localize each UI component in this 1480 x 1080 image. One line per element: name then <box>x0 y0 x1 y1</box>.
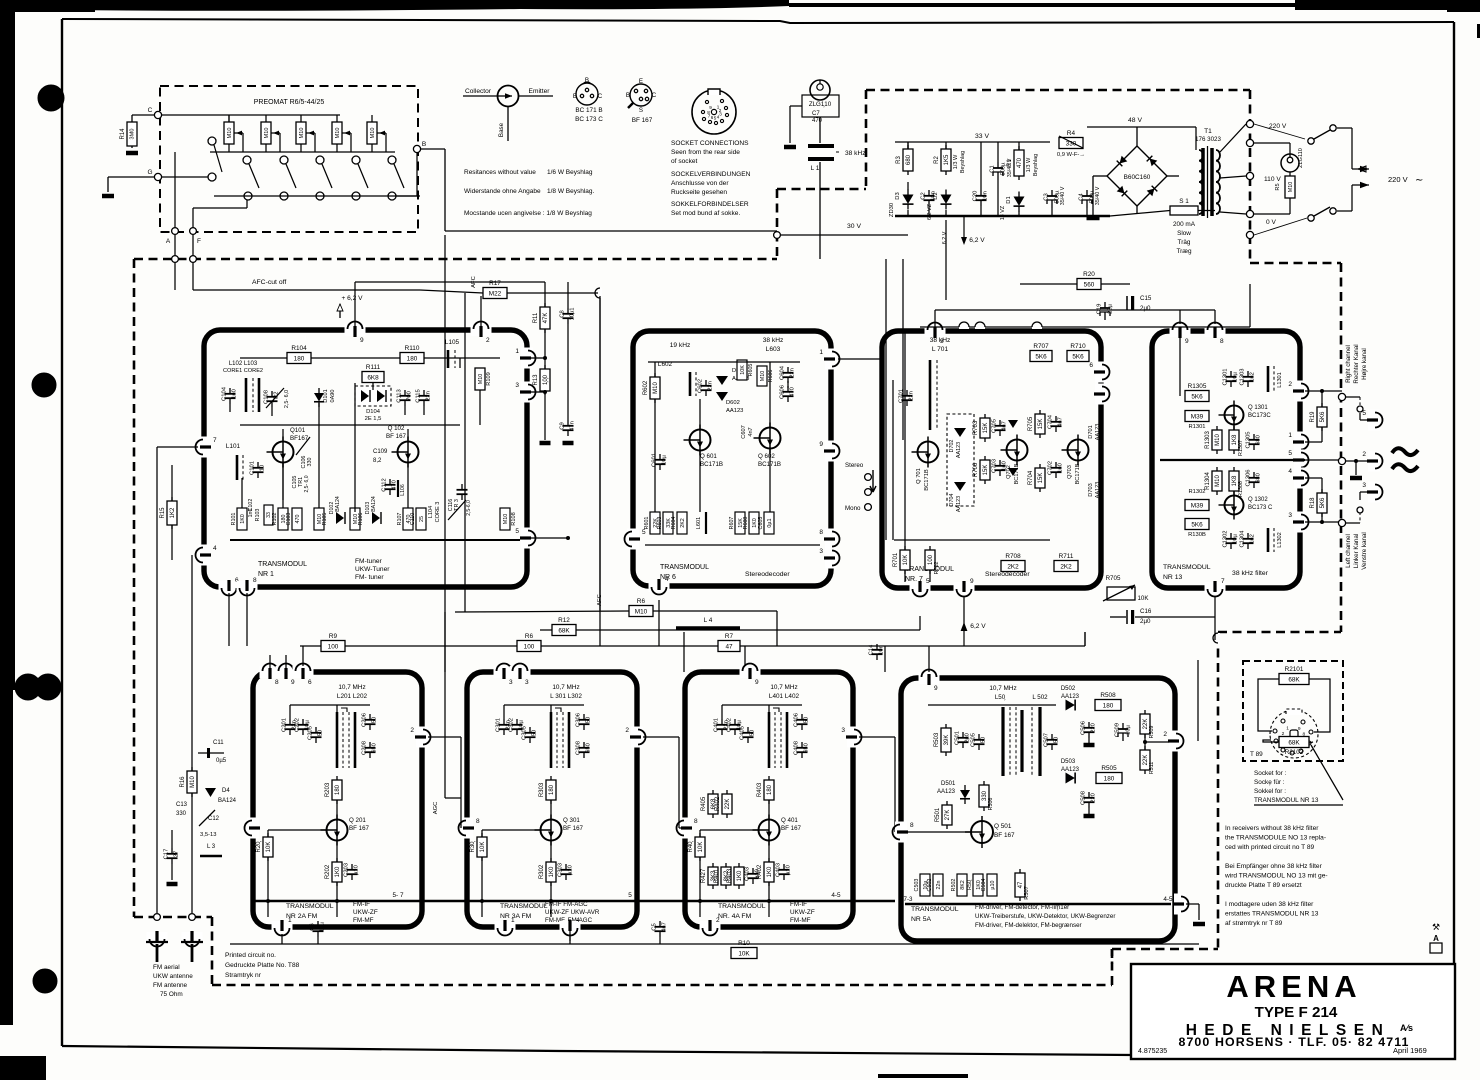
svg-text:R607: R607 <box>729 517 735 530</box>
svg-text:680: 680 <box>906 154 912 165</box>
svg-text:+ 6,2 V: + 6,2 V <box>341 295 363 302</box>
svg-text:D101: D101 <box>323 389 329 402</box>
svg-text:R1302: R1302 <box>1188 489 1205 495</box>
svg-text:A⁄s: A⁄s <box>1400 1023 1413 1033</box>
svg-text:10K: 10K <box>903 555 909 566</box>
svg-text:BF 167: BF 167 <box>386 433 407 440</box>
svg-text:10,7 MHz: 10,7 MHz <box>552 684 579 691</box>
svg-text:38 kHz: 38 kHz <box>845 150 866 157</box>
svg-text:200 mA: 200 mA <box>1173 221 1196 228</box>
svg-text:2,5- 6,0: 2,5- 6,0 <box>304 475 310 492</box>
svg-text:R105: R105 <box>322 513 328 526</box>
svg-text:D701: D701 <box>1088 425 1094 438</box>
svg-text:C112: C112 <box>382 478 388 491</box>
svg-text:Resitances without value: Resitances without value <box>464 169 536 176</box>
svg-text:R102: R102 <box>272 513 278 526</box>
svg-text:SOCKELVERBINDUNGEN: SOCKELVERBINDUNGEN <box>671 171 751 178</box>
svg-text:AA123: AA123 <box>726 408 743 414</box>
svg-text:UKW-Tuner: UKW-Tuner <box>355 566 390 573</box>
svg-text:R1307: R1307 <box>1238 440 1244 456</box>
svg-text:R40̙: R40̙ <box>688 841 694 853</box>
svg-text:6,2 V: 6,2 V <box>970 623 986 630</box>
svg-text:3: 3 <box>509 679 513 686</box>
svg-text:50: 50 <box>372 717 378 723</box>
svg-text:R506: R506 <box>988 798 994 811</box>
svg-text:C403: C403 <box>776 863 782 877</box>
svg-text:B60C160: B60C160 <box>1124 174 1151 181</box>
svg-text:2K2: 2K2 <box>1007 563 1019 570</box>
svg-text:30 V: 30 V <box>847 223 861 230</box>
svg-text:AA123: AA123 <box>1061 694 1080 700</box>
svg-text:C113: C113 <box>397 389 403 402</box>
svg-text:BF 167: BF 167 <box>563 825 584 832</box>
svg-text:8: 8 <box>910 822 914 829</box>
svg-text:R108: R108 <box>511 512 517 525</box>
svg-text:C2: C2 <box>921 192 927 199</box>
svg-text:L101: L101 <box>226 443 241 450</box>
svg-text:E: E <box>573 93 577 100</box>
svg-text:R704: R704 <box>1028 470 1034 485</box>
svg-text:R20̙: R20̙ <box>256 841 262 853</box>
svg-text:L104: L104 <box>428 506 434 518</box>
svg-text:33 V: 33 V <box>975 133 989 140</box>
svg-text:TRANSMODUL: TRANSMODUL <box>718 903 766 910</box>
svg-text:⚒: ⚒ <box>1432 922 1440 932</box>
svg-text:1/3 W: 1/3 W <box>1026 157 1032 172</box>
svg-text:1n2: 1n2 <box>1250 534 1256 544</box>
svg-text:R511: R511 <box>1149 762 1155 775</box>
svg-text:Socket for :: Socket for : <box>1254 770 1287 777</box>
svg-text:C8: C8 <box>560 310 566 317</box>
svg-text:µ10: µ10 <box>568 865 574 875</box>
svg-text:µ10: µ10 <box>990 880 996 889</box>
svg-text:2E 1,5: 2E 1,5 <box>365 416 382 422</box>
svg-text:R710: R710 <box>1070 343 1086 350</box>
svg-text:Mono: Mono <box>845 505 861 512</box>
svg-text:C1: C1 <box>990 165 996 172</box>
svg-text:10K: 10K <box>480 842 486 853</box>
svg-text:7-3: 7-3 <box>904 896 914 903</box>
svg-text:ZLG110: ZLG110 <box>1298 148 1304 168</box>
svg-text:10n: 10n <box>879 645 885 655</box>
svg-text:µ10: µ10 <box>354 865 360 875</box>
svg-text:110 V: 110 V <box>1264 176 1281 183</box>
svg-text:AA123: AA123 <box>937 789 956 795</box>
svg-text:1n0: 1n0 <box>232 389 238 399</box>
svg-text:druckte Platte T 89 ersetzt: druckte Platte T 89 ersetzt <box>1225 882 1302 889</box>
svg-text:af strømtryk nr T 89: af strømtryk nr T 89 <box>1225 920 1283 927</box>
svg-text:10µ1: 10µ1 <box>570 307 576 320</box>
svg-text:C508: C508 <box>1081 791 1087 805</box>
svg-text:Rechter Kanal: Rechter Kanal <box>1353 344 1360 383</box>
svg-text:TRANSMODUL NR 13: TRANSMODUL NR 13 <box>1254 797 1319 804</box>
svg-text:erstattes TRANSMODUL NR: erstattes TRANSMODUL NR 13 <box>1225 911 1319 918</box>
svg-text:ced with printed circuit n: ced with printed circuit no T 89 <box>1225 844 1315 851</box>
svg-text:R111: R111 <box>366 364 381 371</box>
svg-text:M10: M10 <box>335 128 341 139</box>
svg-text:Stereodecoder: Stereodecoder <box>745 571 790 578</box>
svg-text:A: A <box>1433 934 1439 943</box>
svg-text:AA123: AA123 <box>1095 482 1101 499</box>
svg-text:C110: C110 <box>410 513 416 526</box>
svg-text:R5: R5 <box>1275 183 1281 190</box>
svg-text:R12: R12 <box>558 617 570 624</box>
svg-text:C1304: C1304 <box>1240 530 1246 548</box>
svg-text:C505: C505 <box>971 733 977 747</box>
svg-text:1K2: 1K2 <box>170 507 176 518</box>
svg-text:C: C <box>652 92 657 99</box>
svg-text:3,5-13: 3,5-13 <box>200 832 216 838</box>
svg-text:C12: C12 <box>208 816 220 822</box>
svg-text:C: C <box>598 93 603 100</box>
svg-text:R2101: R2101 <box>1285 666 1304 673</box>
svg-text:CORE 3: CORE 3 <box>435 502 441 523</box>
svg-text:50: 50 <box>586 717 592 723</box>
svg-text:C306: C306 <box>576 713 582 727</box>
svg-text:TRANSMODUL: TRANSMODUL <box>911 906 959 913</box>
svg-text:2,5-6,0: 2,5-6,0 <box>466 500 472 516</box>
svg-text:6K8: 6K8 <box>367 374 379 381</box>
svg-text:Ruckseite gesehen: Ruckseite gesehen <box>671 189 727 196</box>
svg-text:2µ0: 2µ0 <box>1140 305 1151 312</box>
svg-text:AA123: AA123 <box>1095 424 1101 441</box>
svg-text:L601: L601 <box>696 517 702 529</box>
svg-text:Widerstande ohne Angabe: Widerstande ohne Angabe <box>464 188 541 195</box>
svg-text:650: 650 <box>586 743 592 753</box>
svg-text:15K: 15K <box>1038 473 1044 484</box>
svg-text:1: 1 <box>515 348 519 355</box>
svg-text:BC171B: BC171B <box>1014 463 1020 484</box>
svg-text:M22: M22 <box>489 290 502 297</box>
svg-text:9: 9 <box>360 337 364 344</box>
svg-text:TRANSMODUL: TRANSMODUL <box>500 903 548 910</box>
svg-text:6: 6 <box>308 679 312 686</box>
svg-text:R130B: R130B <box>1188 532 1206 538</box>
svg-text:M10: M10 <box>635 608 648 615</box>
svg-text:E: E <box>639 78 643 85</box>
svg-text:3: 3 <box>819 548 823 555</box>
svg-text:10K: 10K <box>1137 595 1149 602</box>
svg-text:470: 470 <box>812 118 823 124</box>
svg-text:BC171B: BC171B <box>700 461 723 468</box>
svg-text:UKW-Treiberstufe, UKW-Detektor: UKW-Treiberstufe, UKW-Detektor, UKW-Begr… <box>975 913 1115 920</box>
svg-text:R705: R705 <box>1028 416 1034 431</box>
svg-text:ARENA: ARENA <box>1226 969 1361 1004</box>
svg-text:22n: 22n <box>708 381 714 391</box>
svg-text:NR 13: NR 13 <box>1163 574 1182 581</box>
svg-text:22n: 22n <box>936 881 942 890</box>
svg-text:Base: Base <box>498 122 505 137</box>
svg-text:C1303: C1303 <box>1240 368 1246 385</box>
svg-text:25µ: 25µ <box>1108 303 1114 313</box>
svg-text:Träg: Träg <box>1178 239 1191 246</box>
svg-text:1: 1 <box>511 917 515 924</box>
svg-text:3: 3 <box>719 112 722 117</box>
svg-text:C208: C208 <box>362 741 368 755</box>
svg-text:C103: C103 <box>286 513 292 526</box>
svg-text:C602: C602 <box>698 379 704 393</box>
svg-text:R706: R706 <box>973 462 979 477</box>
svg-text:27K: 27K <box>945 810 951 821</box>
svg-text:68K: 68K <box>558 627 570 634</box>
svg-text:5: 5 <box>628 892 632 899</box>
svg-text:µ10: µ10 <box>755 869 761 879</box>
svg-text:1K0: 1K0 <box>737 870 743 881</box>
svg-text:700: 700 <box>407 391 413 401</box>
svg-text:2: 2 <box>716 917 720 924</box>
svg-text:R30̙: R30̙ <box>470 841 476 853</box>
svg-text:the TRANSMODULE NO 13 repla-: the TRANSMODULE NO 13 repla- <box>1225 835 1326 842</box>
svg-text:Set mod bund af sokke.: Set mod bund af sokke. <box>671 210 740 217</box>
svg-text:5: 5 <box>1288 450 1292 457</box>
svg-text:D702: D702 <box>949 440 955 453</box>
svg-text:R403: R403 <box>727 868 733 883</box>
svg-text:FM-driver, FM-delektor, FM-beg: FM-driver, FM-delektor, FM-begrænser <box>975 922 1082 929</box>
svg-text:Slow: Slow <box>1177 230 1191 237</box>
svg-text:680: 680 <box>1256 473 1262 483</box>
svg-text:47: 47 <box>725 643 733 650</box>
svg-text:22n: 22n <box>909 391 915 401</box>
svg-text:C115: C115 <box>416 389 422 402</box>
svg-text:R1301: R1301 <box>1188 424 1205 430</box>
svg-text:R13: R13 <box>533 374 539 386</box>
svg-text:R303: R303 <box>539 782 545 797</box>
svg-text:BF 167: BF 167 <box>349 825 370 832</box>
svg-text:L1301: L1301 <box>1277 372 1283 388</box>
svg-text:R1305: R1305 <box>1188 383 1207 390</box>
svg-text:D501: D501 <box>941 781 956 787</box>
svg-text:6: 6 <box>1089 362 1093 369</box>
svg-text:B: B <box>626 92 630 99</box>
svg-text:NR 5A: NR 5A <box>911 916 931 923</box>
svg-text:8700 HORSENS · TLF. 05· 82 47: 8700 HORSENS · TLF. 05· 82 4711 <box>1178 1035 1409 1049</box>
svg-text:C503: C503 <box>914 879 920 892</box>
svg-text:BF167: BF167 <box>290 435 309 442</box>
svg-text:470: 470 <box>392 480 398 490</box>
svg-text:L105: L105 <box>445 339 460 346</box>
svg-text:L 701: L 701 <box>932 346 949 353</box>
svg-text:D1: D1 <box>1006 196 1012 203</box>
svg-text:D104: D104 <box>366 409 381 415</box>
svg-text:220: 220 <box>1091 723 1097 733</box>
svg-text:CORE1 CORE2: CORE1 CORE2 <box>223 368 263 374</box>
svg-text:Q 1302: Q 1302 <box>1248 497 1268 503</box>
svg-text:wird TRANSMODUL NO 13 mit: wird TRANSMODUL NO 13 mit ge- <box>1224 873 1328 880</box>
svg-text:1K0: 1K0 <box>767 866 773 877</box>
svg-text:180: 180 <box>549 784 555 795</box>
svg-text:470: 470 <box>295 515 301 524</box>
svg-text:D4: D4 <box>222 788 230 794</box>
svg-text:4-5: 4-5 <box>1163 896 1173 903</box>
svg-text:AGC: AGC <box>433 802 439 815</box>
svg-text:M10: M10 <box>370 128 376 139</box>
svg-text:BC171B: BC171B <box>1075 463 1081 484</box>
svg-text:BC 173 C: BC 173 C <box>575 116 603 123</box>
svg-text:Beyshlag: Beyshlag <box>1033 154 1039 176</box>
svg-text:4.875235: 4.875235 <box>1138 1048 1167 1055</box>
svg-text:22K: 22K <box>725 799 731 810</box>
svg-text:C104: C104 <box>222 386 228 401</box>
svg-text:R302: R302 <box>539 864 545 879</box>
svg-text:1K0: 1K0 <box>240 514 246 524</box>
svg-text:Emitter: Emitter <box>529 88 551 95</box>
svg-text:C4: C4 <box>1079 193 1085 201</box>
svg-text:2K2: 2K2 <box>680 518 686 528</box>
svg-text:180: 180 <box>335 784 341 795</box>
svg-text:R14: R14 <box>120 128 126 140</box>
svg-text:5K6: 5K6 <box>1191 521 1203 528</box>
svg-text:R505: R505 <box>1101 765 1117 772</box>
svg-text:R109: R109 <box>486 372 492 385</box>
svg-text:R711: R711 <box>1059 553 1074 560</box>
svg-text:176 3023: 176 3023 <box>1195 136 1221 143</box>
svg-text:C308: C308 <box>576 741 582 755</box>
svg-text:C20: C20 <box>973 191 979 202</box>
svg-text:In receivers without 38 kHz: In receivers without 38 kHz filter <box>1225 825 1319 832</box>
svg-text:R502: R502 <box>951 879 957 892</box>
svg-text:3: 3 <box>1288 512 1292 519</box>
svg-text:C7: C7 <box>812 111 820 117</box>
svg-text:Højre kanal: Højre kanal <box>1361 348 1368 380</box>
svg-text:R507: R507 <box>1024 886 1030 899</box>
svg-text:M10: M10 <box>264 128 270 139</box>
svg-text:M10: M10 <box>760 371 766 382</box>
svg-text:50: 50 <box>532 730 538 736</box>
svg-text:4-5: 4-5 <box>831 892 841 899</box>
svg-text:C1301: C1301 <box>1223 368 1229 385</box>
svg-text:R705: R705 <box>1106 575 1121 582</box>
svg-text:Anschlusse von der: Anschlusse von der <box>671 180 729 187</box>
svg-text:D503: D503 <box>1061 759 1076 765</box>
svg-text:R606: R606 <box>768 370 774 383</box>
svg-text:C201: C201 <box>282 718 288 732</box>
svg-text:4n7: 4n7 <box>1002 421 1008 431</box>
svg-text:100: 100 <box>524 643 535 650</box>
svg-text:1/6 W Beyshlag: 1/6 W Beyshlag <box>547 169 593 176</box>
svg-text:L603: L603 <box>766 346 781 353</box>
svg-text:680: 680 <box>1256 435 1262 445</box>
svg-text:R17: R17 <box>489 280 501 287</box>
svg-text:UKW-ZF: UKW-ZF <box>790 909 815 916</box>
svg-text:50: 50 <box>1054 737 1060 743</box>
svg-text:3: 3 <box>515 382 519 389</box>
svg-text:0µ5: 0µ5 <box>216 758 227 764</box>
svg-text:1/3 W: 1/3 W <box>953 154 959 169</box>
svg-text:C15: C15 <box>1140 295 1152 302</box>
svg-text:PREOMAT R6/5-44/25: PREOMAT R6/5-44/25 <box>254 99 325 106</box>
svg-text:C402: C402 <box>727 718 733 732</box>
svg-text:10,7 MHz: 10,7 MHz <box>989 685 1016 692</box>
svg-text:22n: 22n <box>426 391 432 401</box>
svg-text:2µ0: 2µ0 <box>1140 618 1151 625</box>
svg-text:R110: R110 <box>405 345 420 352</box>
svg-text:FM-MF: FM-MF <box>790 917 811 924</box>
svg-text:9: 9 <box>934 685 938 692</box>
svg-text:L50̙: L50̙ <box>995 694 1006 701</box>
svg-text:R10: R10 <box>738 940 750 947</box>
svg-text:2: 2 <box>486 337 490 344</box>
svg-text:9: 9 <box>1185 338 1189 345</box>
svg-text:Left channel: Left channel <box>1345 534 1352 568</box>
svg-text:C605: C605 <box>758 517 764 530</box>
svg-text:1: 1 <box>288 917 292 924</box>
svg-text:C403: C403 <box>745 867 751 881</box>
svg-text:D3: D3 <box>895 192 901 199</box>
svg-text:FM- tuner: FM- tuner <box>355 574 384 581</box>
svg-text:4n7: 4n7 <box>1058 417 1064 427</box>
svg-text:NR 3A FM: NR 3A FM <box>500 913 532 920</box>
svg-text:AA123: AA123 <box>956 442 962 458</box>
svg-text:R3: R3 <box>896 156 902 164</box>
svg-text:C101: C101 <box>250 461 256 475</box>
svg-text:M10: M10 <box>653 382 659 394</box>
svg-text:8: 8 <box>476 818 480 825</box>
svg-text:15K: 15K <box>983 423 989 434</box>
svg-text:6,2 VZ: 6,2 VZ <box>927 203 933 220</box>
svg-text:C301: C301 <box>496 718 502 732</box>
svg-text:2: 2 <box>1288 381 1292 388</box>
svg-text:R2102: R2102 <box>1285 749 1304 756</box>
svg-text:650: 650 <box>372 743 378 753</box>
svg-text:R401: R401 <box>714 868 720 883</box>
svg-text:C5: C5 <box>652 923 658 930</box>
svg-text:T1: T1 <box>1204 128 1212 135</box>
svg-text:C19: C19 <box>1097 304 1103 315</box>
svg-text:C17: C17 <box>164 849 170 860</box>
svg-text:C109: C109 <box>373 449 388 455</box>
svg-text:R19: R19 <box>1310 411 1316 423</box>
svg-text:Printed circuit no.: Printed circuit no. <box>225 952 276 959</box>
svg-text:8: 8 <box>819 529 823 536</box>
svg-text:B: B <box>585 77 589 84</box>
svg-text:BF 167: BF 167 <box>781 825 802 832</box>
svg-text:47K: 47K <box>543 313 549 324</box>
svg-text:G: G <box>147 169 152 176</box>
svg-text:M10: M10 <box>299 128 305 139</box>
svg-text:10K: 10K <box>738 950 750 957</box>
svg-text:∼: ∼ <box>1415 175 1423 186</box>
svg-text:1: 1 <box>1288 432 1292 439</box>
svg-text:M10: M10 <box>1215 475 1221 487</box>
svg-text:18 VZ: 18 VZ <box>1000 205 1006 220</box>
svg-text:AFC-cut off: AFC-cut off <box>252 279 286 286</box>
svg-text:TRANSMODUL: TRANSMODUL <box>660 564 709 571</box>
svg-text:Q101: Q101 <box>290 427 306 434</box>
svg-text:3: 3 <box>525 679 529 686</box>
svg-text:68K: 68K <box>1288 739 1300 746</box>
svg-text:C16: C16 <box>1140 608 1152 615</box>
svg-text:Linker Kanal: Linker Kanal <box>1353 534 1360 568</box>
svg-text:R106: R106 <box>358 513 364 526</box>
svg-text:µ10: µ10 <box>786 865 792 875</box>
svg-text:FM-IF: FM-IF <box>353 901 370 908</box>
svg-text:R103: R103 <box>255 509 261 522</box>
svg-text:R202: R202 <box>325 864 331 879</box>
svg-text:Q 701: Q 701 <box>916 468 922 484</box>
svg-text:10µ: 10µ <box>662 454 668 464</box>
svg-text:C206: C206 <box>362 713 368 727</box>
svg-text:C205: C205 <box>308 726 314 740</box>
svg-text:C401: C401 <box>714 718 720 732</box>
svg-text:BC171B: BC171B <box>924 469 930 491</box>
svg-text:BF 167: BF 167 <box>632 117 653 124</box>
svg-text:R15: R15 <box>160 507 166 519</box>
svg-text:L201 L202: L201 L202 <box>337 693 368 700</box>
svg-text:C504: C504 <box>981 879 987 892</box>
svg-text:S 1: S 1 <box>1179 198 1189 205</box>
svg-text:Q703: Q703 <box>1067 465 1073 479</box>
svg-text:4n7: 4n7 <box>748 427 754 436</box>
